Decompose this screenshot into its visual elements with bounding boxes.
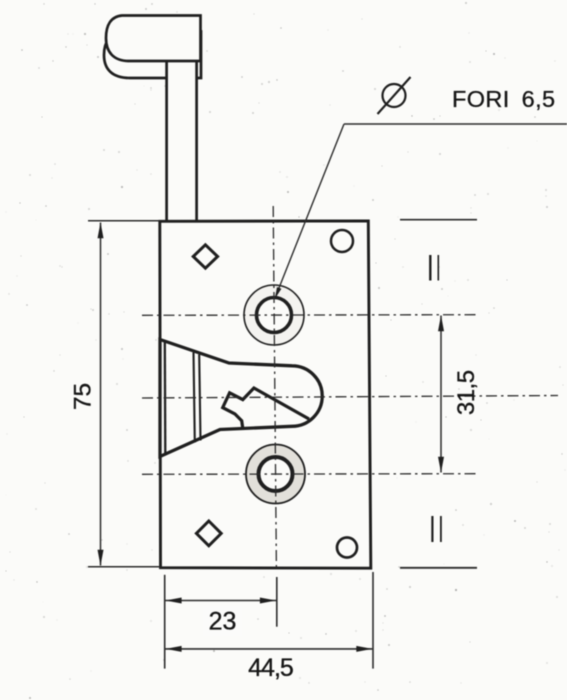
svg-text:31,5: 31,5 [453,370,480,415]
label patch [203,606,242,636]
keyhole cutout [160,340,322,457]
top hole centerline [142,314,478,317]
dim31.5 arrow up [438,315,444,331]
svg-text:75: 75 [70,383,97,410]
dim75 extension top [88,220,159,222]
lower diamond hole [196,521,221,546]
dim23 line [166,600,277,602]
dim75 arrow down [98,550,104,566]
dim44.5 arrow right [356,646,372,652]
top hole counterbore [244,285,304,345]
parallel mark upper [430,255,438,281]
keyhole centerline [142,396,558,399]
upper diamond hole [193,245,217,268]
dim75 extension bottom [88,566,159,568]
lever stem [167,59,197,222]
leader arrow [275,287,282,299]
svg-text:23: 23 [209,608,237,636]
dim75 arrow up [98,222,104,238]
dim31.5 arrow down [438,457,444,473]
dim23 arrow right [260,598,276,604]
dim44.5 arrow left [166,646,182,652]
right extension bottom [400,567,477,569]
right extension top [400,219,477,221]
dim23 extension centre [276,577,278,627]
keyhole inner edge line [164,341,167,456]
diameter symbol [378,77,411,114]
dim31.5 line [440,316,442,473]
bottom hole centerline [142,473,478,476]
keyhole fold line 1 [194,353,195,443]
svg-text:FORI 6,5: FORI 6,5 [452,86,556,112]
top hole [257,298,292,333]
vertical centerline [273,206,276,568]
keyhole fold line 2 [199,355,200,441]
leader line horizontal [344,123,567,125]
latch zigzag [223,388,309,429]
dim44.5 extension right [372,572,374,669]
dim44.5 line [166,648,373,650]
small hole bottom right [337,538,357,558]
dim23 arrow left [166,598,182,604]
lever lower outline [104,32,201,79]
small hole top right [331,230,353,252]
bottom hole [259,457,293,491]
parallel mark lower [432,516,441,542]
dim75 line [100,223,102,566]
dim23 extension left [164,575,166,669]
bottom hole counterbore [246,445,305,504]
lever head [106,16,201,62]
lock plate body [160,221,371,568]
svg-text:44,5: 44,5 [248,654,293,682]
leader line diagonal [276,124,344,295]
